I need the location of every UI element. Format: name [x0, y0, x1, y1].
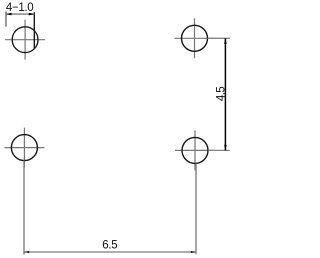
dimension D2 top extension line — [208, 37, 230, 39]
dimension D3 right arrowhead — [191, 251, 196, 253]
hole H3 (bottom-left) center lines — [4, 128, 44, 168]
hole H2 (top-right) circle — [182, 25, 208, 51]
dimension D3 left arrowhead — [24, 251, 29, 253]
hole H1 (top-left) center lines — [5, 20, 45, 60]
svg-text:6.5: 6.5 — [102, 240, 117, 252]
dimension D3 left extension line — [23, 161, 25, 255]
hole H4 (bottom-right) circle — [182, 137, 208, 163]
dimension D2 bottom arrowhead — [224, 145, 227, 151]
dimension D1 right arrowhead — [29, 13, 35, 16]
dimension D2 bottom extension line — [208, 149, 230, 151]
svg-text:4−1.0: 4−1.0 — [6, 2, 34, 14]
dimension D1 right extension line — [33, 12, 35, 48]
dimension D1 line — [6, 13, 34, 15]
dimension D1 left arrowhead — [6, 13, 12, 16]
dimension D1 left extension line — [5, 11, 7, 26]
dimension D2 line — [224, 38, 226, 150]
dimension D2 top arrowhead — [224, 38, 227, 44]
hole H3 (bottom-left) circle — [11, 135, 37, 161]
dimension D3 right extension line — [195, 163, 197, 254]
dimension D3 line — [24, 251, 196, 253]
hole H2 (top-right) center lines — [175, 18, 215, 58]
hole H1 (top-left) circle — [12, 27, 38, 53]
hole H4 (bottom-right) center lines — [175, 130, 215, 170]
